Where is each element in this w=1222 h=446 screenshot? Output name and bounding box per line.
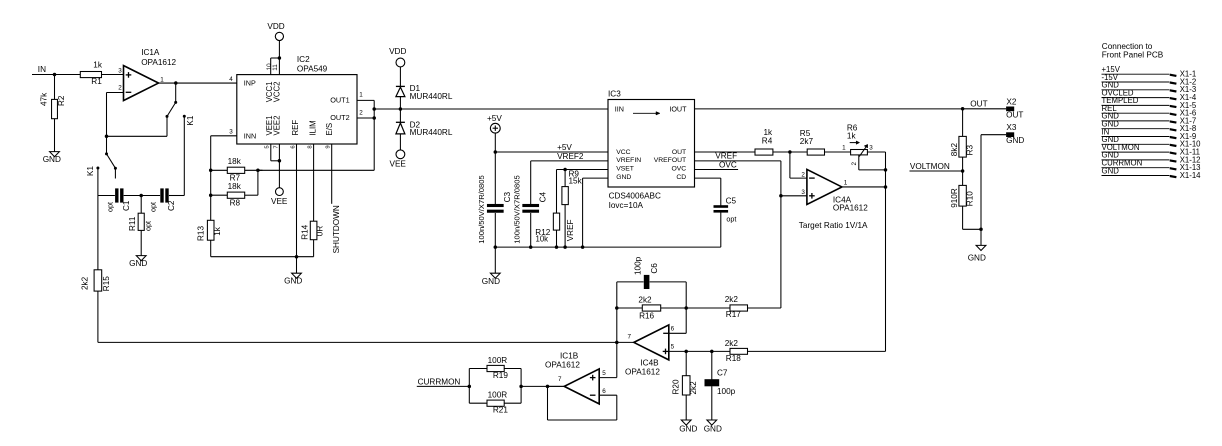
wire C6 right riser: [685, 282, 687, 333]
svg-text:6: 6: [290, 145, 296, 148]
node R8 left: [209, 193, 213, 197]
node R19 R21 right: [519, 385, 523, 389]
resistor R7: [211, 169, 228, 171]
svg-text:8: 8: [308, 145, 314, 148]
wire IC4B pin5: [669, 350, 730, 352]
resistor R21: [469, 402, 487, 404]
svg-text:OUT2: OUT2: [330, 113, 349, 122]
svg-text:100R: 100R: [488, 356, 508, 365]
svg-text:VEE: VEE: [271, 197, 288, 206]
svg-text:CD: CD: [676, 174, 686, 181]
wire IC1B output: [548, 385, 565, 387]
wire IC4B output: [617, 341, 634, 343]
wire R6 pin2: [858, 155, 860, 170]
svg-text:2: 2: [118, 84, 122, 91]
svg-text:10k: 10k: [536, 235, 549, 244]
svg-text:X3: X3: [1006, 123, 1016, 132]
capacitor C6: [644, 275, 650, 289]
pin 7 wire to VEE: [278, 144, 280, 188]
wire R15 top: [97, 196, 99, 270]
svg-text:VREFOUT: VREFOUT: [654, 157, 686, 164]
node IC4B output: [615, 341, 619, 345]
node IC4A output: [884, 185, 888, 189]
switch K1 contact b2: [96, 167, 99, 170]
svg-text:1k: 1k: [93, 61, 103, 70]
svg-text:CDS4006ABC: CDS4006ABC: [609, 191, 661, 200]
wire pin6 GND drop: [296, 144, 298, 257]
node C7 top: [710, 350, 714, 354]
svg-text:6: 6: [602, 388, 606, 395]
resistor R3: [959, 136, 966, 157]
wire D1 to main wire: [399, 97, 401, 123]
wire C1 left: [98, 195, 115, 197]
wire OUT1: [357, 99, 374, 101]
svg-text:R18: R18: [726, 354, 741, 363]
svg-text:1k: 1k: [213, 226, 222, 236]
wire IC4A output: [842, 186, 886, 188]
resistor R9: [562, 187, 568, 205]
capacitor C4: [522, 204, 539, 207]
wire CD to C5: [695, 177, 721, 179]
svg-text:IC1A: IC1A: [141, 48, 160, 57]
wire R10 bottom: [962, 206, 964, 229]
wire R5 to R6: [825, 151, 851, 153]
svg-text:C7: C7: [717, 369, 728, 378]
svg-text:VREF: VREF: [566, 219, 575, 241]
node R16 right: [684, 306, 688, 310]
svg-text:11: 11: [272, 64, 279, 71]
wire R11 to GND: [140, 230, 142, 255]
svg-text:VEE2: VEE2: [273, 116, 282, 136]
svg-text:+5V: +5V: [487, 114, 502, 123]
node VREF rail: [563, 245, 567, 249]
svg-text:R19: R19: [493, 371, 508, 380]
resistor R4: [755, 149, 773, 155]
wire X2: [963, 108, 1007, 110]
svg-text:VOLTMON: VOLTMON: [910, 162, 950, 171]
wire to IC1B output: [521, 385, 564, 387]
node +5V / VCC wire: [494, 150, 498, 154]
svg-text:7: 7: [627, 333, 631, 340]
wire R6 pin3: [867, 151, 885, 153]
svg-text:IN: IN: [38, 65, 46, 74]
diode D1: [396, 85, 405, 87]
svg-text:K1: K1: [86, 166, 95, 176]
wire R12 from VSET: [556, 170, 558, 214]
svg-text:VCC: VCC: [616, 149, 630, 156]
pin 10 wire: [270, 58, 272, 75]
pin 11 wire: [278, 58, 280, 75]
svg-text:0R: 0R: [316, 226, 325, 237]
plus sign IC1A: [126, 74, 132, 76]
svg-text:VEE: VEE: [390, 159, 407, 168]
svg-text:4: 4: [229, 76, 233, 83]
svg-text:R21: R21: [493, 406, 508, 415]
svg-text:OUT: OUT: [970, 99, 987, 108]
wire R3 top: [962, 109, 964, 137]
node IN/R2 junction: [53, 73, 57, 77]
svg-text:VDD: VDD: [267, 22, 284, 31]
wire ground rail under IC2: [211, 256, 314, 258]
trimmer R6 adjust arrow: [850, 142, 857, 144]
svg-text:CURRMON: CURRMON: [418, 378, 461, 387]
node R20 top: [684, 350, 688, 354]
node R3 main wire: [961, 107, 965, 111]
svg-text:R20: R20: [672, 379, 681, 394]
node IC3 GND rail: [581, 245, 585, 249]
wire R3 to R10: [962, 157, 964, 185]
resistor R12: [553, 213, 559, 230]
svg-text:IC4B: IC4B: [640, 358, 659, 367]
op-amp IC2 OPA549 body: [237, 75, 357, 144]
resistor R15: [94, 270, 102, 291]
wire K1 contact to C1: [97, 168, 99, 196]
svg-text:C6: C6: [650, 263, 659, 274]
svg-text:K1: K1: [186, 115, 195, 125]
wire pin3 VREF to IC4A: [781, 195, 807, 197]
node IC1B output: [546, 385, 550, 389]
wire IC2 INN: [211, 135, 237, 137]
wire R9 top: [564, 170, 566, 187]
node R10 X3 GND: [979, 228, 983, 232]
wire C7 top segment: [711, 351, 713, 379]
switch K1 contact a1 (output): [175, 83, 177, 102]
wire R12 to rail: [556, 230, 558, 247]
wire R1 to IC1A pin3: [102, 74, 124, 76]
wire to ground: [980, 229, 982, 245]
svg-text:OVC: OVC: [719, 160, 737, 169]
node pin5/pin7: [278, 159, 282, 163]
pin 8 wire to R14: [313, 144, 315, 221]
svg-text:VCC2: VCC2: [273, 81, 282, 102]
svg-text:1k: 1k: [847, 131, 857, 140]
svg-text:R11: R11: [128, 216, 137, 231]
wire R8 riser to feedback: [257, 170, 259, 195]
svg-text:9: 9: [326, 145, 332, 148]
op-amp IC4A: [807, 169, 842, 204]
svg-text:E/S: E/S: [325, 123, 334, 136]
capacitor C1: [115, 188, 118, 202]
svg-text:GND: GND: [482, 277, 500, 286]
wire C6 left riser: [616, 282, 618, 378]
svg-text:GND: GND: [704, 424, 722, 433]
svg-text:2: 2: [359, 109, 363, 116]
wire R19 R21 left bracket: [468, 369, 470, 404]
ground below R10: [976, 245, 986, 250]
minus sign IC4B: [663, 332, 668, 334]
svg-text:8k2: 8k2: [950, 143, 959, 157]
trimmer R6: [851, 150, 868, 155]
node pins 10 11: [278, 56, 282, 60]
svg-text:X2: X2: [1006, 97, 1016, 106]
plus sign IC4B: [663, 350, 669, 352]
wire D2 to VEE: [399, 134, 401, 150]
wire R20 to GND: [685, 395, 687, 420]
svg-text:R3: R3: [966, 144, 975, 155]
wire VSET: [557, 169, 609, 171]
node VOLTMON: [961, 169, 965, 173]
svg-text:5: 5: [265, 145, 271, 148]
wire R2 to GND: [54, 119, 56, 152]
node feedback junction: [105, 135, 109, 139]
minus sign IC1B: [590, 394, 596, 396]
node C1/C2/R11: [139, 194, 143, 198]
svg-text:C2: C2: [167, 200, 176, 211]
svg-text:3: 3: [801, 189, 805, 196]
svg-text:100n/50V/X7R/0805: 100n/50V/X7R/0805: [513, 175, 522, 243]
node R6 pin2 junction: [884, 168, 888, 172]
svg-text:910R: 910R: [950, 188, 959, 208]
svg-text:VSET: VSET: [616, 166, 634, 173]
svg-text:2k7: 2k7: [800, 137, 814, 146]
plus sign IC1B: [590, 377, 596, 379]
diode D2: [396, 121, 405, 123]
wire switch a to feedback: [166, 116, 168, 136]
svg-text:VREF2: VREF2: [557, 152, 584, 161]
wire +5V to IC3 VCC: [495, 151, 608, 153]
wire R15 to IC4B output (long): [97, 291, 99, 342]
svg-text:OUT1: OUT1: [330, 96, 349, 105]
svg-text:3: 3: [869, 145, 873, 152]
svg-text:C4: C4: [538, 191, 547, 202]
svg-text:100p: 100p: [634, 256, 643, 275]
svg-text:OPA1612: OPA1612: [833, 203, 868, 212]
svg-text:1: 1: [359, 92, 363, 99]
wire VDD to pins 10 11: [278, 41, 280, 59]
svg-text:IC3: IC3: [608, 90, 621, 99]
svg-text:C3: C3: [503, 191, 512, 202]
svg-text:+5V: +5V: [557, 143, 572, 152]
svg-text:1: 1: [842, 144, 846, 151]
wire C3 to rail: [494, 213, 496, 247]
wire R13 bottom: [210, 240, 212, 257]
svg-text:1: 1: [844, 180, 848, 187]
resistor R14: [310, 221, 317, 240]
wire IC1A output to IC2 INP: [159, 82, 237, 84]
wire R9 to rail / net VREF: [564, 205, 566, 248]
svg-text:R16: R16: [639, 312, 654, 321]
wire R4 to R5: [773, 151, 807, 153]
svg-text:IOUT: IOUT: [669, 105, 687, 114]
wire ground rail IC3: [495, 246, 721, 248]
svg-text:R1: R1: [91, 77, 102, 86]
resistor R18: [730, 348, 748, 354]
wire C7 to GND: [711, 386, 713, 420]
ground below IC2: [296, 257, 298, 274]
switch K1 pivot b: [105, 152, 108, 155]
svg-text:R17: R17: [726, 310, 741, 319]
wire IC1B pin5 riser: [599, 377, 617, 379]
plus sign IC4A: [809, 195, 815, 197]
svg-text:opt: opt: [106, 202, 115, 212]
svg-text:SHUTDOWN: SHUTDOWN: [332, 205, 341, 253]
svg-text:1k: 1k: [764, 128, 774, 137]
wire IC3 GND pin drop: [583, 177, 608, 179]
resistor R10: [959, 185, 966, 206]
svg-text:INP: INP: [244, 78, 256, 87]
svg-text:2k2: 2k2: [638, 296, 652, 305]
svg-text:VREFIN: VREFIN: [616, 157, 641, 164]
node R12 rail: [555, 245, 559, 249]
svg-text:C1: C1: [122, 200, 131, 211]
node R16 left: [615, 306, 619, 310]
svg-text:3: 3: [118, 68, 122, 75]
svg-text:OPA1612: OPA1612: [545, 360, 580, 369]
supply VEE below D2: [396, 150, 405, 159]
node diode junction: [399, 107, 403, 111]
ground below C3: [494, 247, 496, 273]
svg-text:R10: R10: [966, 191, 975, 206]
svg-text:R4: R4: [762, 137, 773, 146]
svg-text:2k2: 2k2: [725, 295, 739, 304]
switch K1 blade b: [107, 154, 116, 168]
svg-text:15k: 15k: [569, 176, 583, 185]
svg-text:GND: GND: [679, 424, 697, 433]
wire pin2 drop to IC4A: [789, 152, 791, 178]
svg-text:7: 7: [558, 376, 562, 383]
ground below R11: [136, 256, 146, 261]
svg-text:MUR440RL: MUR440RL: [410, 92, 453, 101]
wire X3 to GND: [981, 134, 1006, 136]
pin 5 wire: [270, 144, 272, 161]
node R7/R8 feedback: [256, 169, 260, 173]
svg-text:ILIM: ILIM: [309, 120, 318, 135]
op-amp IC4B: [634, 325, 669, 360]
wire IC4B pin6: [669, 332, 686, 334]
svg-text:GND: GND: [1102, 166, 1120, 175]
minus sign IC1A: [126, 91, 132, 93]
wire R19 R21 right bracket: [520, 369, 522, 404]
wire VREFOUT / VREF: [695, 160, 781, 162]
svg-text:Target Ratio 1V/1A: Target Ratio 1V/1A: [799, 221, 868, 230]
ground below C7: [707, 420, 717, 425]
capacitor C2: [160, 188, 163, 202]
svg-text:GND: GND: [1006, 136, 1024, 145]
svg-text:6: 6: [671, 325, 675, 332]
trimmer R6 wiper arrow: [859, 146, 866, 156]
ground below R2: [50, 152, 60, 157]
wire VOLTMON: [910, 170, 963, 172]
wire IC1B pin6 feedback: [599, 394, 617, 396]
wire R11 top: [140, 196, 142, 214]
svg-text:GND: GND: [129, 259, 147, 268]
resistor R11: [138, 213, 144, 230]
resistor R16: [617, 307, 643, 309]
resistor R20: [685, 351, 687, 375]
wire C6 loop: [617, 281, 644, 283]
wire OUT2: [357, 117, 374, 119]
svg-text:2k2: 2k2: [689, 381, 698, 395]
svg-text:REF: REF: [291, 120, 300, 136]
resistor R1: [80, 72, 101, 78]
svg-text:18k: 18k: [228, 182, 242, 191]
wire VREF down to IC4A: [780, 161, 782, 308]
node R7 left: [209, 169, 213, 173]
svg-text:3: 3: [229, 128, 233, 135]
switch K1 stub b: [114, 168, 116, 178]
svg-text:2: 2: [801, 172, 805, 179]
svg-text:GND: GND: [616, 174, 631, 181]
wire R2 top: [54, 75, 56, 100]
svg-text:VREF: VREF: [715, 151, 737, 160]
supply VEE below IC2: [276, 188, 284, 196]
svg-text:100R: 100R: [488, 391, 508, 400]
wire IC3 OUT to R4: [695, 151, 756, 153]
svg-text:100n/50V/X7R/0805: 100n/50V/X7R/0805: [477, 175, 486, 243]
wire C4 to rail: [530, 213, 532, 247]
wire main output: [374, 108, 608, 110]
svg-text:Iovc=10A: Iovc=10A: [609, 201, 644, 210]
node R4/R5/pin2: [788, 150, 792, 154]
minus sign IC4A: [809, 177, 815, 179]
svg-text:100p: 100p: [717, 387, 736, 396]
node VREF pin3: [779, 194, 783, 198]
svg-text:2k2: 2k2: [725, 339, 739, 348]
svg-text:IC1B: IC1B: [560, 352, 579, 361]
svg-text:18k: 18k: [228, 157, 242, 166]
wire OVC stub: [695, 169, 739, 171]
svg-text:C5: C5: [726, 196, 737, 205]
wire VREFIN / VREF2: [531, 160, 608, 162]
node R19 R21 left: [468, 385, 472, 389]
svg-text:opt: opt: [143, 221, 152, 231]
pin 9 wire SHUTDOWN: [331, 144, 333, 204]
wire VDD to D1: [399, 67, 401, 87]
wire +5V down to C3: [494, 133, 496, 204]
node C3 rail GND: [494, 245, 498, 249]
svg-text:R15: R15: [102, 276, 111, 291]
svg-text:OUT: OUT: [672, 149, 686, 156]
svg-text:INN: INN: [244, 132, 256, 141]
resistor R17: [686, 307, 730, 309]
svg-text:7: 7: [273, 145, 279, 148]
current sensor IC3 body: [608, 100, 695, 188]
wire IC1A pin2 feedback: [107, 92, 124, 94]
svg-text:R8: R8: [230, 199, 241, 208]
svg-text:R2: R2: [57, 95, 66, 106]
node IC1A output: [174, 81, 178, 85]
svg-text:47k: 47k: [40, 92, 49, 106]
wire K1 contact to C2 right: [183, 116, 185, 195]
wire CURRMON to R19 R21: [417, 385, 470, 387]
switch K1 contact a2: [183, 115, 186, 118]
svg-text:OUT: OUT: [1006, 111, 1023, 120]
svg-text:VDD: VDD: [389, 47, 406, 56]
svg-text:OVC: OVC: [671, 166, 686, 173]
svg-text:2k2: 2k2: [81, 276, 90, 290]
resistor R2: [52, 99, 58, 118]
svg-text:GND: GND: [43, 155, 61, 164]
svg-text:2: 2: [851, 162, 858, 166]
ground below R20: [681, 420, 691, 425]
svg-text:OPA1612: OPA1612: [141, 58, 176, 67]
svg-text:OPA549: OPA549: [297, 64, 328, 73]
svg-text:5: 5: [602, 370, 606, 377]
node OUT1 on main wire: [372, 107, 376, 111]
capacitor C5: [714, 205, 729, 208]
svg-text:R14: R14: [301, 224, 310, 239]
svg-text:GND: GND: [284, 276, 302, 285]
wire C5 to rail: [720, 211, 722, 247]
svg-text:IC2: IC2: [297, 55, 310, 64]
svg-text:R13: R13: [197, 226, 206, 241]
wire C1 to C2: [124, 195, 160, 197]
resistor R8: [211, 194, 228, 196]
svg-text:OPA1612: OPA1612: [625, 368, 660, 377]
node OUT2 riser: [372, 116, 376, 120]
svg-text:opt: opt: [726, 214, 736, 223]
svg-text:IIN: IIN: [615, 105, 624, 114]
